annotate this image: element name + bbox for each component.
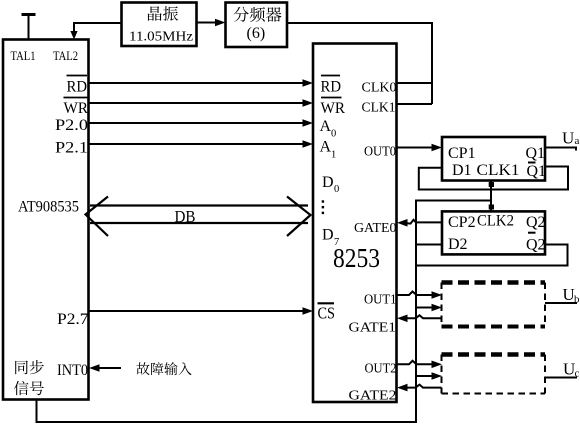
- svg-text:GATE0: GATE0: [354, 221, 397, 236]
- svg-text:AT908535: AT908535: [18, 199, 79, 216]
- svg-text:b: b: [574, 294, 580, 306]
- svg-text:GATE1: GATE1: [349, 321, 397, 336]
- svg-text:11.05MHz: 11.05MHz: [129, 30, 193, 45]
- svg-text:Q1: Q1: [527, 163, 547, 180]
- svg-text:D1: D1: [452, 162, 472, 179]
- svg-text:P2.7: P2.7: [57, 311, 89, 328]
- svg-text:A: A: [320, 118, 332, 135]
- svg-text:RD: RD: [67, 79, 88, 96]
- svg-text:Q1: Q1: [526, 145, 546, 162]
- svg-text:D: D: [322, 174, 334, 191]
- svg-text:DB: DB: [175, 207, 196, 226]
- svg-text:U: U: [563, 360, 575, 379]
- svg-text:A: A: [320, 139, 332, 156]
- svg-text:CLK1: CLK1: [477, 162, 520, 179]
- svg-text:1: 1: [331, 150, 336, 161]
- svg-text:8253: 8253: [333, 243, 380, 273]
- svg-text:D: D: [322, 227, 334, 244]
- svg-text:P2.0: P2.0: [55, 117, 88, 134]
- svg-text:0: 0: [331, 129, 336, 140]
- svg-text:CLK1: CLK1: [362, 101, 396, 116]
- svg-text:U: U: [562, 129, 574, 148]
- svg-text:CLK2: CLK2: [477, 213, 514, 230]
- svg-text:Q2: Q2: [526, 214, 546, 231]
- svg-text:TAL1: TAL1: [11, 48, 36, 63]
- svg-text:WR: WR: [64, 100, 89, 117]
- svg-text:c: c: [575, 368, 580, 380]
- svg-text:U: U: [563, 285, 575, 304]
- svg-text:OUT1: OUT1: [364, 292, 397, 307]
- svg-text:OUT2: OUT2: [365, 361, 397, 376]
- svg-text:TAL2: TAL2: [53, 48, 78, 63]
- svg-text:OUT0: OUT0: [364, 145, 396, 160]
- svg-text:GATE2: GATE2: [349, 389, 397, 404]
- svg-text:INT0: INT0: [57, 362, 88, 379]
- svg-text:a: a: [575, 135, 580, 147]
- svg-text:D2: D2: [448, 236, 468, 253]
- svg-text:WR: WR: [321, 100, 346, 117]
- svg-text:RD: RD: [321, 79, 342, 96]
- svg-text:0: 0: [334, 184, 339, 195]
- svg-text:CS: CS: [318, 304, 336, 323]
- svg-text:CP1: CP1: [448, 145, 476, 162]
- svg-text:CP2: CP2: [448, 214, 476, 231]
- svg-text:Q2: Q2: [526, 237, 546, 254]
- svg-text:CLK0: CLK0: [362, 81, 397, 96]
- svg-text:P2.1: P2.1: [55, 140, 88, 157]
- svg-text:(6): (6): [247, 25, 266, 42]
